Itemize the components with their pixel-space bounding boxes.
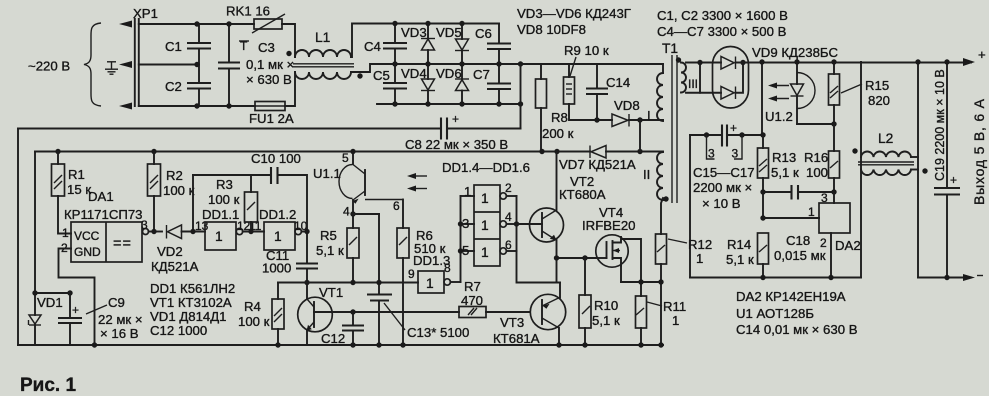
svg-text:6: 6 (393, 199, 400, 213)
bridge bottom bus (377, 103, 521, 105)
svg-text:5: 5 (462, 243, 469, 258)
svg-text:VD9 КД238БС: VD9 КД238БС (752, 45, 838, 60)
svg-text:VD1: VD1 (37, 295, 63, 310)
choke L2 (852, 131, 927, 175)
MOSFET VT4 (582, 205, 636, 267)
inverter DD1.1 (202, 207, 264, 250)
svg-text:5,1 к: 5,1 к (771, 165, 799, 180)
node dots bridge bottom (392, 101, 397, 106)
svg-text:1: 1 (274, 229, 282, 244)
svg-text:4: 4 (505, 210, 512, 224)
connector XP1 pins (double line) (134, 19, 136, 106)
wire FU1 to L1 (285, 72, 295, 106)
svg-text:DD1 К561ЛН2: DD1 К561ЛН2 (150, 281, 235, 296)
svg-text:5,1 к: 5,1 к (316, 243, 344, 258)
optocoupler U1.1 (313, 149, 427, 228)
svg-text:C2: C2 (165, 79, 182, 94)
svg-text:C12 1000: C12 1000 (150, 323, 207, 338)
resistor R12 (656, 234, 713, 345)
svg-text:C14 0,01 мк × 630 В: C14 0,01 мк × 630 В (736, 322, 858, 337)
svg-text:1: 1 (481, 245, 489, 260)
svg-text:XP1: XP1 (133, 6, 158, 21)
svg-text:С8 22 мк × 350 В: С8 22 мк × 350 В (405, 137, 508, 152)
svg-text:R16: R16 (804, 150, 828, 165)
control left edge (34, 152, 36, 294)
T1 winding I (647, 64, 663, 123)
resistor R14 (726, 233, 769, 278)
svg-text:R2: R2 (166, 168, 183, 183)
transistor VT2 (517, 152, 606, 283)
svg-text:DD1.4—DD1.6: DD1.4—DD1.6 (442, 160, 530, 175)
inductor L1 (286, 30, 362, 79)
svg-text:L1: L1 (315, 30, 330, 45)
svg-text:VCC: VCC (74, 229, 100, 243)
svg-text:1: 1 (62, 226, 69, 240)
svg-text:1000: 1000 (262, 261, 291, 276)
svg-text:VD2: VD2 (157, 244, 183, 259)
svg-text:==: == (113, 236, 132, 252)
capacitors C15-C17 (690, 121, 763, 211)
svg-text:4: 4 (343, 205, 350, 219)
capacitor C10 (190, 151, 307, 234)
capacitor C11 (262, 248, 318, 283)
wire RK1 to L1 (282, 24, 295, 57)
rail VD8 to VT4/R11 (639, 120, 641, 152)
svg-text:C7: C7 (473, 67, 490, 82)
ground (chassis) symbol (105, 62, 118, 74)
inverters DD1.4-DD1.6 (442, 160, 530, 282)
svg-text:1: 1 (464, 184, 471, 199)
svg-text:VD8: VD8 (614, 98, 640, 113)
capacitor C19 (933, 62, 960, 278)
svg-text:R12: R12 (688, 237, 712, 252)
svg-text:C1, C2 3300 × 1600 В: C1, C2 3300 × 1600 В (657, 8, 788, 23)
svg-text:C12: C12 (321, 331, 345, 346)
arrow pin bottom (119, 103, 132, 110)
fuse FU1 (249, 102, 294, 127)
svg-text:+: + (452, 112, 459, 126)
svg-text:DA1: DA1 (88, 189, 114, 204)
svg-text:× 630 В: × 630 В (246, 72, 292, 87)
capacitor C6 (475, 24, 511, 65)
output rail right (917, 62, 919, 278)
wire LED cathode to R15 bottom (797, 123, 834, 125)
diode VD5 (436, 24, 469, 65)
diode VD6 (436, 64, 469, 104)
svg-text:R15: R15 (865, 78, 889, 93)
svg-text:VD5: VD5 (436, 25, 462, 40)
svg-text:Выход 5 В, 6 А: Выход 5 В, 6 А (971, 98, 987, 205)
supervisor DA1 (59, 189, 163, 348)
svg-text:C18: C18 (786, 233, 810, 248)
svg-text:× 10 В: × 10 В (702, 196, 741, 211)
resistor R1 (52, 149, 92, 234)
svg-text:3: 3 (708, 147, 715, 161)
svg-text:U1.2: U1.2 (765, 109, 793, 124)
svg-text:T1: T1 (662, 41, 678, 56)
svg-text:R1: R1 (68, 167, 85, 182)
DA2 cell bottom wire (621, 281, 661, 283)
svg-text:1: 1 (696, 251, 703, 266)
driver gate net wire (557, 257, 598, 259)
svg-text:КТ680А: КТ680А (559, 187, 606, 202)
svg-text:100 к: 100 к (238, 314, 270, 329)
capacitor C1 (165, 24, 211, 65)
svg-text:C13* 5100: C13* 5100 (407, 325, 469, 340)
capacitor C12 (321, 312, 364, 346)
svg-text:22 мк ×: 22 мк × (98, 312, 143, 327)
resistor R3 (208, 175, 258, 232)
diode VD2 (151, 225, 205, 274)
svg-text:II: II (643, 167, 650, 182)
ground bus bottom (18, 344, 663, 346)
riser mid bus to C8 line (520, 64, 522, 129)
transistor VT1 (298, 283, 459, 346)
outer box left edge (17, 129, 19, 346)
svg-text:КТ681А: КТ681А (493, 331, 540, 346)
diode VD7 (35, 146, 663, 173)
svg-text:R7: R7 (464, 279, 481, 294)
svg-text:C5: C5 (373, 68, 390, 83)
svg-text:820: 820 (868, 93, 890, 108)
svg-text:RK1 16: RK1 16 (226, 4, 270, 19)
svg-text:2: 2 (505, 181, 512, 195)
dual diode VD9 (697, 45, 838, 108)
svg-text:VD1 Д814Д1: VD1 Д814Д1 (150, 309, 227, 324)
svg-text:III: III (688, 77, 698, 91)
zener VD1 (29, 293, 63, 345)
rail VD9 plus to DA2 cell (860, 62, 862, 278)
svg-text:L2: L2 (878, 131, 893, 146)
svg-text:VD8 10DF8: VD8 10DF8 (517, 22, 586, 37)
node dots bridge mid (392, 61, 397, 66)
resistor R9 (564, 43, 613, 120)
brace for mains (84, 23, 101, 106)
wire bottom mains (139, 105, 255, 107)
optocoupler U1.2 (765, 62, 815, 124)
svg-text:+: + (978, 47, 986, 62)
svg-text:3: 3 (141, 218, 148, 232)
node C1C2 bottom (194, 103, 199, 108)
svg-text:U1.1: U1.1 (313, 166, 341, 181)
wire L1 bottom to bridge mid bus (351, 64, 663, 72)
diode VD3 (401, 24, 435, 65)
svg-text:200 к: 200 к (542, 126, 574, 141)
T1 winding II (643, 152, 669, 234)
resistor R13 (758, 135, 799, 218)
capacitor C2 (165, 65, 211, 107)
svg-text:2: 2 (820, 236, 827, 250)
svg-text:КР1171СП73: КР1171СП73 (64, 207, 143, 222)
svg-text:100 к: 100 к (163, 183, 195, 198)
base net wire VT1 area (278, 282, 418, 284)
svg-text:DA2: DA2 (835, 238, 861, 253)
arrow pin mid (119, 61, 132, 68)
svg-text:1: 1 (481, 218, 489, 233)
resistor R15 (829, 62, 891, 124)
wire top mains (139, 23, 254, 25)
svg-text:R8: R8 (551, 110, 568, 125)
svg-text:100: 100 (806, 165, 828, 180)
svg-text:+: + (730, 121, 737, 135)
svg-text:VT1: VT1 (319, 285, 343, 300)
svg-text:C4: C4 (364, 39, 381, 54)
svg-text:C3: C3 (258, 40, 275, 55)
svg-text:5,1 к: 5,1 к (592, 313, 620, 328)
resistor R2 (148, 149, 195, 232)
svg-text:VD7 КД521А: VD7 КД521А (559, 157, 636, 172)
svg-text:2200 мк ×: 2200 мк × (693, 180, 752, 195)
transformer T1 core (671, 55, 673, 203)
wire L1 top to bridge (351, 24, 499, 58)
inverter DD1.3 (408, 253, 461, 293)
svg-text:КД521А: КД521А (151, 259, 199, 274)
svg-text:C14: C14 (606, 75, 630, 90)
svg-text:R10: R10 (594, 298, 618, 313)
svg-text:1: 1 (426, 276, 434, 291)
capacitor C13 (367, 214, 469, 348)
svg-text:R3: R3 (216, 177, 233, 192)
resistor R6 (397, 228, 446, 348)
svg-text:R5: R5 (320, 228, 337, 243)
svg-text:+: + (72, 303, 79, 317)
thermistor RK1 (226, 4, 285, 54)
svg-text:Рис. 1: Рис. 1 (20, 375, 76, 396)
svg-text:FU1 2A: FU1 2A (249, 111, 294, 126)
svg-text:DD1.1: DD1.1 (202, 207, 239, 222)
gates output bus down to base net (517, 251, 561, 283)
optocoupler U1.2 LED branch riser (761, 62, 763, 135)
svg-text:0,015 мк: 0,015 мк (774, 248, 826, 263)
inverter DD1.2 (259, 207, 308, 264)
T1 winding III (676, 57, 721, 92)
capacitor C18 (763, 185, 834, 263)
svg-text:5,1 к: 5,1 к (726, 252, 754, 267)
svg-text:3: 3 (732, 147, 739, 161)
svg-text:C10 100: C10 100 (251, 151, 301, 166)
regulator DA2 (763, 191, 861, 278)
VT4 source wire (620, 266, 622, 283)
svg-text:~220 В: ~220 В (28, 59, 70, 74)
svg-text:C1: C1 (165, 39, 182, 54)
svg-text:6: 6 (505, 238, 512, 252)
capacitor C8 electrolytic (18, 112, 521, 152)
capacitor C5 (373, 64, 407, 104)
wire mid mains (139, 64, 197, 66)
svg-text:8: 8 (444, 261, 451, 275)
svg-text:DA2 КР142ЕН19А: DA2 КР142ЕН19А (736, 289, 846, 304)
svg-text:VT3: VT3 (500, 315, 524, 330)
svg-text:0,1 мк ×: 0,1 мк × (246, 57, 294, 72)
svg-text:1: 1 (215, 229, 223, 244)
svg-text:U1 АОТ128Б: U1 АОТ128Б (736, 306, 814, 321)
svg-text:VD3—VD6 КД243Г: VD3—VD6 КД243Г (517, 6, 631, 21)
svg-text:C9: C9 (108, 295, 125, 310)
svg-text:× 16 В: × 16 В (100, 326, 139, 341)
svg-text:GND: GND (74, 245, 101, 259)
arrow pin top (119, 21, 132, 28)
transistor VT3 (493, 294, 566, 346)
svg-text:C4—C7 3300 × 500 В: C4—C7 3300 × 500 В (657, 24, 787, 39)
svg-text:R4: R4 (244, 299, 261, 314)
resistor R8 (536, 64, 574, 152)
resistor R5 (316, 228, 359, 283)
resistor R11 (636, 279, 687, 345)
resistor R4 (238, 283, 284, 346)
svg-text:R13: R13 (772, 150, 796, 165)
capacitor C9 (32, 290, 142, 345)
svg-text:1: 1 (481, 191, 489, 206)
svg-text:VT1 КТ3102А: VT1 КТ3102А (150, 295, 232, 310)
svg-text:3: 3 (462, 216, 469, 231)
node C1C2 mid (194, 62, 199, 67)
svg-text:C19 2200 мк × 10 В: C19 2200 мк × 10 В (933, 69, 947, 181)
svg-text:C6: C6 (475, 26, 492, 41)
svg-text:100 к: 100 к (208, 192, 240, 207)
svg-text:1: 1 (672, 313, 679, 328)
capacitor C4 (364, 24, 407, 65)
svg-text:VD3: VD3 (401, 25, 427, 40)
diode VD4 (401, 64, 435, 104)
VT4 drain jog to winding II (622, 239, 641, 296)
svg-text:9: 9 (408, 267, 415, 281)
diode VD8 (612, 98, 663, 127)
resistor R16 (804, 124, 840, 192)
svg-text:R11: R11 (663, 299, 686, 314)
svg-text:С15—С17: С15—С17 (693, 165, 755, 180)
plus output wire (736, 62, 972, 64)
svg-text:5: 5 (342, 151, 349, 165)
svg-text:IRFBE20: IRFBE20 (582, 218, 636, 233)
capacitor C7 (473, 64, 511, 104)
capacitor C3 (218, 24, 294, 106)
svg-text:DD1.2: DD1.2 (259, 207, 296, 222)
DA2 cell left edge (689, 135, 691, 278)
minus output wire (918, 277, 971, 279)
svg-text:1: 1 (808, 205, 815, 219)
node dots bridge top (392, 21, 397, 26)
svg-text:I: I (647, 108, 651, 123)
svg-text:+: + (950, 173, 957, 187)
resistor R7 (459, 279, 530, 318)
capacitor C14 (586, 64, 630, 120)
svg-text:R9 10 к: R9 10 к (564, 43, 609, 58)
node C1C2 top (194, 21, 199, 26)
resistor R10 (579, 258, 620, 345)
svg-text:R14: R14 (727, 237, 751, 252)
